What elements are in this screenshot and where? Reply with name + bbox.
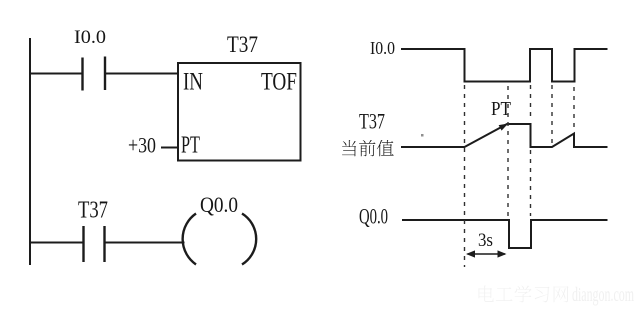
svg-text:TOF: TOF: [261, 69, 297, 96]
svg-text:I0.0: I0.0: [74, 27, 106, 48]
dashed line at t4: [573, 87, 575, 131]
coil Q0.0 left paren: [183, 214, 196, 265]
watermark: [478, 286, 568, 303]
svg-text:T37: T37: [359, 109, 385, 134]
contact T37 right bar: [103, 226, 105, 262]
label 当前值: [342, 140, 394, 156]
svg-text:T37: T37: [78, 198, 108, 224]
dashed line at t3: [551, 85, 553, 145]
contact I0.0 left bar: [81, 58, 83, 91]
wire rung1 right segment: [105, 73, 178, 75]
arrowhead 3s right: [498, 250, 507, 257]
waveform Q0.0: [402, 220, 608, 248]
svg-text:3s: 3s: [478, 230, 493, 251]
wire rung2 left segment: [30, 242, 83, 244]
svg-text:Q0.0: Q0.0: [200, 192, 238, 217]
svg-text:I0.0: I0.0: [370, 38, 395, 58]
svg-text:Q0.0: Q0.0: [359, 204, 388, 229]
speck noise: [421, 134, 424, 137]
waveform I0.0: [401, 49, 608, 82]
svg-text:diangon.com: diangon.com: [572, 284, 634, 306]
wire PT stub: [161, 147, 178, 149]
contact I0.0 right bar: [104, 57, 106, 91]
arrowhead 3s left: [466, 250, 475, 257]
coil Q0.0 right paren: [242, 214, 256, 265]
wire rung1 left segment: [30, 73, 82, 75]
contact T37 left bar: [82, 226, 84, 262]
svg-text:+30: +30: [128, 133, 156, 158]
dashed line at PT reach: [507, 86, 509, 217]
timer box T37: [178, 63, 301, 161]
arrowhead PT point: [499, 124, 509, 131]
dashed line at t1: [464, 85, 466, 267]
svg-text:PT: PT: [181, 133, 200, 159]
svg-text:T37: T37: [227, 32, 258, 57]
dashed line at t2 lower: [530, 150, 532, 216]
svg-text:IN: IN: [183, 69, 203, 96]
arrow 3s span: [468, 253, 506, 255]
wire rung2 right segment: [105, 242, 185, 244]
waveform T37 current value: [401, 124, 608, 147]
dashed line at t2 upper: [530, 85, 532, 121]
left power rail: [29, 38, 31, 265]
